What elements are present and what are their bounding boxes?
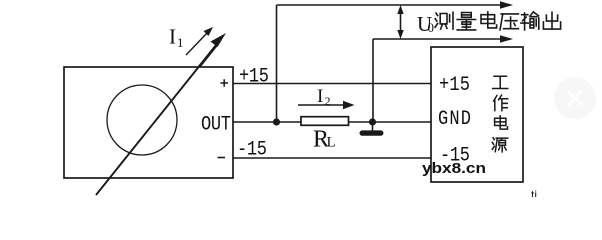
- sensor box (current transducer): [64, 67, 233, 178]
- supply name 工作电源 (working power supply): [492, 76, 508, 152]
- svg-text:I: I: [169, 25, 176, 49]
- U0 output line 1 (top): [277, 1, 514, 9]
- power supply box: [431, 47, 523, 182]
- wire node A up to U0 top line: [276, 5, 278, 122]
- svg-text:OUT: OUT: [201, 113, 231, 136]
- svg-text:I: I: [317, 86, 323, 107]
- wire +15: [233, 83, 431, 85]
- label U0: [417, 12, 434, 36]
- sensor meter circle: [107, 85, 177, 155]
- wire ground node up to U0 line 2: [372, 39, 374, 122]
- node A junction dot: [273, 118, 280, 125]
- label 测量电压输出 (measured voltage output): [435, 12, 560, 30]
- svg-text:-15: -15: [237, 138, 267, 161]
- wire OUT to GND: [233, 121, 431, 123]
- I2 arrow: [298, 101, 355, 109]
- ground: [360, 122, 384, 136]
- svg-text:ti: ti: [531, 188, 537, 197]
- wire -15: [233, 157, 431, 159]
- svg-text:L: L: [327, 135, 336, 151]
- svg-text:+15: +15: [439, 74, 470, 97]
- svg-text:2: 2: [325, 94, 331, 108]
- faint watermark circle: [554, 77, 596, 119]
- svg-text:0: 0: [428, 20, 435, 35]
- current label I2: [317, 86, 331, 108]
- I1 arrow: [186, 27, 213, 55]
- U0 double-headed arrow: [397, 5, 403, 39]
- svg-text:ybx8.cn: ybx8.cn: [422, 160, 486, 177]
- ground junction dot: [369, 118, 376, 125]
- current label I1: [169, 25, 184, 51]
- svg-text:1: 1: [177, 35, 184, 50]
- svg-text:GND: GND: [438, 108, 471, 131]
- label RL: [313, 127, 336, 153]
- svg-text:+15: +15: [239, 65, 269, 88]
- pin -: [218, 157, 226, 159]
- U0 output line 2: [373, 35, 513, 43]
- pin +: [221, 79, 229, 87]
- sensor diagonal arrow (thick): [96, 33, 226, 195]
- resistor RL: [301, 117, 349, 126]
